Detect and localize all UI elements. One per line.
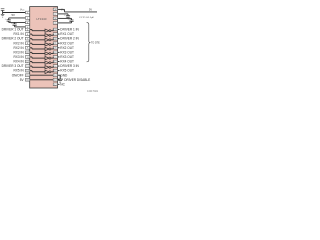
svg-text:C1 TO C4: 1µF: C1 TO C4: 1µF xyxy=(79,17,94,19)
svg-text:RX1 OUT: RX1 OUT xyxy=(60,32,74,36)
svg-text:RX1 IN: RX1 IN xyxy=(13,32,24,36)
svg-text:DRIVER DISABLE: DRIVER DISABLE xyxy=(64,78,90,82)
svg-text:ON/OFF: ON/OFF xyxy=(12,73,24,77)
svg-text:RX5 IN: RX5 IN xyxy=(13,69,24,73)
svg-text:RX3 IN: RX3 IN xyxy=(13,55,24,59)
svg-text:GND: GND xyxy=(60,73,68,77)
svg-text:RX2 OUT: RX2 OUT xyxy=(60,46,74,50)
svg-text:DRIVER 1 OUT: DRIVER 1 OUT xyxy=(2,28,24,32)
svg-text:RX3 IN: RX3 IN xyxy=(13,50,24,54)
svg-text:DRIVER 3 IN: DRIVER 3 IN xyxy=(60,64,79,68)
svg-text:RX3 OUT: RX3 OUT xyxy=(60,55,74,59)
svg-text:RX5 OUT: RX5 OUT xyxy=(60,69,74,73)
svg-text:RX4 IN: RX4 IN xyxy=(13,60,24,64)
svg-text:VCC: VCC xyxy=(20,8,25,11)
svg-text:DRIVER 2 OUT: DRIVER 2 OUT xyxy=(2,37,24,41)
svg-text:DRIVER 1 IN: DRIVER 1 IN xyxy=(60,28,79,32)
svg-text:5V: 5V xyxy=(89,8,92,11)
svg-text:LT1340: LT1340 xyxy=(36,17,46,21)
svg-text:RX3 OUT: RX3 OUT xyxy=(60,50,74,54)
svg-text:RX2 OUT: RX2 OUT xyxy=(60,41,74,45)
svg-text:NC: NC xyxy=(60,82,65,86)
svg-text:RX4 OUT: RX4 OUT xyxy=(60,60,74,64)
svg-text:DRIVER 3 OUT: DRIVER 3 OUT xyxy=(2,64,24,68)
svg-text:1340 TA01: 1340 TA01 xyxy=(87,90,99,93)
svg-text:RX2 IN: RX2 IN xyxy=(13,46,24,50)
svg-text:DRIVER 2 IN: DRIVER 2 IN xyxy=(60,37,79,41)
svg-text:TO DTE: TO DTE xyxy=(91,42,100,45)
svg-text:RX2 IN: RX2 IN xyxy=(13,41,24,45)
svg-text:5V: 5V xyxy=(11,13,15,17)
